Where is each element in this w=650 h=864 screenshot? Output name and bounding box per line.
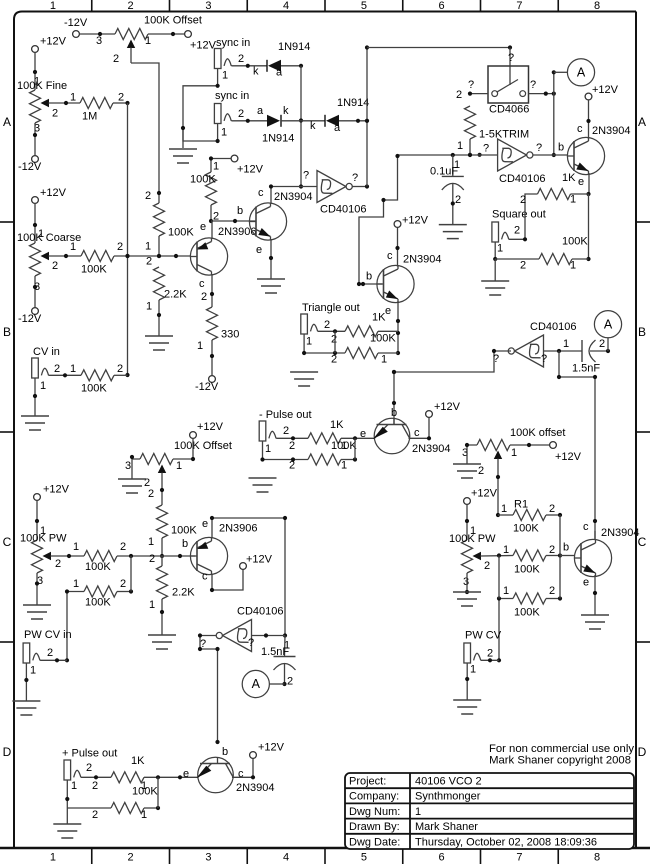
wire Q1 emitter up to node xyxy=(211,221,213,239)
resistor 100K (-pulse) xyxy=(308,440,357,465)
svg-text:2: 2 xyxy=(148,488,154,500)
resistor 100K-F xyxy=(84,541,126,573)
svg-text:1: 1 xyxy=(454,159,460,171)
svg-text:+12V: +12V xyxy=(40,187,67,199)
wire CV 100K to node column xyxy=(114,374,128,376)
capacitor 1.5nF (C row) xyxy=(261,636,296,688)
wire CD4066 left pin to trim xyxy=(456,79,488,101)
svg-text:b: b xyxy=(366,271,372,283)
svg-text:2.2K: 2.2K xyxy=(172,587,195,599)
transistor Q5 2N3904 -pulse xyxy=(373,407,451,455)
connector Square out jack xyxy=(492,222,520,255)
ground (triangle jack) xyxy=(290,372,318,386)
wire 2.2K-A to ground xyxy=(157,300,161,336)
potentiometer 100K PW (left) xyxy=(20,533,67,588)
power terminal +12V (offset right) xyxy=(550,442,582,463)
ground (2.2K-A) xyxy=(145,336,173,350)
connector - Pulse out jack xyxy=(259,421,289,455)
svg-text:k: k xyxy=(253,66,259,78)
wire +12V to 100K-B xyxy=(209,156,231,172)
svg-text:2: 2 xyxy=(283,425,289,437)
wire U4 input to PW net xyxy=(557,351,597,540)
svg-text:40106 VCO 2: 40106 VCO 2 xyxy=(415,776,482,788)
svg-text:+ Pulse out: + Pulse out xyxy=(62,748,117,760)
label sync in 1 xyxy=(216,37,250,49)
svg-text:1: 1 xyxy=(71,780,77,792)
wire coarse 100K to node row xyxy=(114,254,191,258)
wire node to Q6 base xyxy=(162,538,195,558)
potentiometer 100K Offset (PW) xyxy=(125,440,232,490)
wire +12V to coarse pot xyxy=(33,203,44,243)
svg-text:100K: 100K xyxy=(81,383,107,395)
wire jack1 pin2 to diode D1 xyxy=(231,64,267,78)
ground (0.1uF) xyxy=(439,225,467,239)
wire 100K to emitter node xyxy=(341,438,357,471)
wire 1K to emitter xyxy=(141,768,198,792)
svg-text:1: 1 xyxy=(497,243,503,255)
power terminal +12V (PW pot) xyxy=(34,484,70,501)
svg-text:2: 2 xyxy=(599,338,605,350)
wire 1K to emitter xyxy=(341,428,375,452)
diode D1 1N914 xyxy=(267,41,310,79)
svg-text:?: ? xyxy=(493,353,499,365)
wire fine pot pin3 to -12V xyxy=(33,123,37,156)
resistor 100K-H xyxy=(148,505,197,548)
wire fine wiper to 1M xyxy=(49,92,80,106)
svg-text:D: D xyxy=(3,745,12,759)
svg-text:b: b xyxy=(222,746,228,758)
wire PW CV right jack pin2 xyxy=(481,658,499,662)
wire PW right wiper to 100K-K xyxy=(481,544,513,558)
wire sync node vertical to inverter U1 input xyxy=(299,66,303,189)
label PW CV (right) xyxy=(465,630,502,642)
svg-text:Triangle out: Triangle out xyxy=(302,302,360,314)
wire 330 to -12V xyxy=(210,340,214,376)
ground (square jack) xyxy=(481,281,509,295)
svg-text:2: 2 xyxy=(146,256,152,268)
svg-text:2: 2 xyxy=(324,319,330,331)
svg-text:2: 2 xyxy=(128,0,134,12)
svg-text:2: 2 xyxy=(118,92,124,104)
wire Q7 collector to +12V xyxy=(232,758,255,779)
svg-text:c: c xyxy=(238,768,244,780)
svg-text:330: 330 xyxy=(221,329,239,341)
svg-text:1: 1 xyxy=(213,161,219,173)
svg-text:c: c xyxy=(577,123,583,135)
wire top rail to CD4066 control xyxy=(367,45,514,85)
svg-text:100K: 100K xyxy=(85,597,111,609)
svg-text:2: 2 xyxy=(238,108,244,120)
wire PW CV right to 100K-L xyxy=(497,585,513,662)
transistor Q3 2N3904 square xyxy=(558,125,631,188)
svg-text:2: 2 xyxy=(287,676,293,688)
svg-text:2.2K: 2.2K xyxy=(164,289,187,301)
wire coarse wiper to 100K xyxy=(49,241,81,258)
wire PW pot pin3 to ground xyxy=(35,573,39,605)
svg-text:1: 1 xyxy=(222,70,228,82)
svg-text:1: 1 xyxy=(501,503,507,515)
svg-text:3: 3 xyxy=(463,576,469,588)
svg-text:e: e xyxy=(583,577,589,589)
svg-text:PW CV: PW CV xyxy=(465,630,502,642)
svg-text:sync in: sync in xyxy=(216,37,250,49)
power terminal +12V (sync pull-up) xyxy=(231,155,264,175)
wire +pulse jack pin1 node xyxy=(65,780,111,808)
svg-text:A: A xyxy=(638,115,646,129)
svg-text:1N914: 1N914 xyxy=(262,133,294,145)
wire Q6 collector to +12V xyxy=(210,569,243,592)
svg-text:1: 1 xyxy=(221,127,227,139)
svg-text:2: 2 xyxy=(201,291,207,303)
wire +pulse jack pin2 to 1K xyxy=(81,775,111,792)
transistor Q7 2N3904 +pulse xyxy=(197,740,275,794)
svg-text:4: 4 xyxy=(283,852,289,864)
wire U5 output jog to Q7 base xyxy=(198,633,220,742)
wire emitter node to Q2 base xyxy=(211,205,256,223)
svg-text:7: 7 xyxy=(516,0,522,12)
svg-text:100K offset: 100K offset xyxy=(510,427,565,439)
svg-text:e: e xyxy=(385,305,391,317)
svg-text:+12V: +12V xyxy=(471,488,498,500)
svg-text:1.5nF: 1.5nF xyxy=(261,646,289,658)
svg-text:1: 1 xyxy=(265,443,271,455)
wire square jack pin1 node xyxy=(493,242,539,272)
power terminal -12V (osc) xyxy=(195,376,219,393)
resistor 2.2K-B xyxy=(149,553,195,611)
transistor Q2 2N3904 xyxy=(249,187,312,256)
svg-text:1: 1 xyxy=(563,338,569,350)
svg-text:2: 2 xyxy=(487,648,493,660)
svg-text:2: 2 xyxy=(117,241,123,253)
label + Pulse out xyxy=(62,748,117,760)
wire offset pot pin1 to +12V xyxy=(173,438,195,461)
svg-text:1-5KTRIM: 1-5KTRIM xyxy=(479,129,529,141)
svg-text:6: 6 xyxy=(439,852,445,864)
wire offset right wiper down to R1 xyxy=(496,475,500,517)
resistor 2.2K-A xyxy=(146,256,187,313)
svg-text:?: ? xyxy=(541,353,547,365)
svg-text:1: 1 xyxy=(570,194,576,206)
connector PW CV in jack xyxy=(23,643,53,677)
svg-text:+12V: +12V xyxy=(43,484,70,496)
label Square out xyxy=(492,209,546,221)
capacitor 1.5nF (B row) xyxy=(572,338,605,375)
wire 100K-A to node xyxy=(157,236,161,258)
power terminal +12V (Q6) xyxy=(240,554,273,570)
wire U4 input node xyxy=(544,338,583,353)
svg-text:2: 2 xyxy=(120,541,126,553)
wire +pulse jack to ground xyxy=(66,808,68,824)
wire inverter U3 output to Q3 base xyxy=(533,142,568,155)
power terminal -12V (fine pot) xyxy=(18,156,42,173)
resistor 100K-G xyxy=(84,578,126,609)
svg-text:A: A xyxy=(252,677,261,691)
svg-text:3: 3 xyxy=(96,35,102,47)
svg-text:100K: 100K xyxy=(514,564,540,576)
label sync in 2 xyxy=(215,90,249,102)
op-amp U3 CD40106 schmitt inverter xyxy=(483,139,545,185)
svg-text:1: 1 xyxy=(73,578,79,590)
svg-text:c: c xyxy=(387,250,393,262)
node A circle (B row) xyxy=(594,311,621,338)
svg-text:3: 3 xyxy=(205,0,211,12)
wire R1 leads xyxy=(498,513,562,517)
wire offset pot pin1 to +12V terminal xyxy=(148,32,185,36)
wire Q6 emitter to inverter U5 input xyxy=(210,516,287,638)
svg-text:2: 2 xyxy=(520,194,526,206)
svg-text:A: A xyxy=(577,66,586,80)
wire D1 anode to sync node xyxy=(281,64,303,68)
svg-text:c: c xyxy=(258,187,264,199)
svg-text:1: 1 xyxy=(381,354,387,366)
ground (PW pot left) xyxy=(23,605,51,619)
svg-text:8: 8 xyxy=(594,0,600,12)
svg-text:2: 2 xyxy=(92,809,98,821)
potentiometer 100K Coarse xyxy=(17,232,81,293)
svg-text:?: ? xyxy=(508,52,514,64)
wire -pulse jack pin1 node xyxy=(260,441,308,472)
grid row labels left xyxy=(3,115,12,759)
svg-text:2: 2 xyxy=(289,440,295,452)
svg-text:1: 1 xyxy=(197,340,203,352)
wire Q2 emitter to ground xyxy=(269,239,273,279)
svg-text:2: 2 xyxy=(549,585,555,597)
svg-text:?: ? xyxy=(468,79,474,91)
svg-text:2: 2 xyxy=(120,578,126,590)
wire 1M pin2 node vertical xyxy=(113,101,130,377)
resistor 100K-B pull-up xyxy=(190,172,217,205)
svg-text:1: 1 xyxy=(50,0,56,12)
svg-text:-12V: -12V xyxy=(195,381,219,393)
resistor 1K (-pulse) xyxy=(308,419,344,444)
wire PW CV jack pin2 xyxy=(40,658,67,662)
svg-text:C: C xyxy=(3,535,12,549)
grid column ticks top xyxy=(92,0,559,12)
svg-text:Synthmonger: Synthmonger xyxy=(415,791,481,803)
svg-text:B: B xyxy=(638,325,646,339)
ground (PW CV right) xyxy=(453,700,481,714)
svg-text:CV in: CV in xyxy=(33,346,60,358)
svg-text:1: 1 xyxy=(503,544,509,556)
svg-text:2: 2 xyxy=(456,89,462,101)
wire CV jack pin1 to ground xyxy=(33,378,37,416)
transistor Q1 2N3906 xyxy=(190,221,256,290)
svg-text:?: ? xyxy=(303,170,309,182)
title block xyxy=(345,773,634,849)
wire +12V to fine pot xyxy=(33,52,37,90)
svg-text:2: 2 xyxy=(514,225,520,237)
svg-text:1: 1 xyxy=(30,665,36,677)
svg-text:1: 1 xyxy=(457,140,463,152)
svg-text:c: c xyxy=(202,571,208,583)
wire +12V to PW pot xyxy=(35,500,46,540)
resistor 100K-A xyxy=(145,190,194,253)
wire -pulse jack pin2 to 1K xyxy=(276,436,308,452)
svg-text:3: 3 xyxy=(125,460,131,472)
wire 100K-K to base node xyxy=(546,542,569,558)
svg-text:100K Offset: 100K Offset xyxy=(174,440,232,452)
svg-text:c: c xyxy=(199,278,205,290)
wire CV jack pin2 to 100K xyxy=(49,363,81,377)
wire node to U3 jog down to Q4 base xyxy=(357,154,400,286)
note non-commercial xyxy=(489,743,634,755)
svg-text:2: 2 xyxy=(145,190,151,202)
svg-text:?: ? xyxy=(536,142,542,154)
power terminal +12V (square driver) xyxy=(585,84,619,100)
svg-text:2N3904: 2N3904 xyxy=(274,191,313,203)
wire 100K to emitter node xyxy=(141,777,160,821)
wire jack1 pin1 to ground rail xyxy=(183,69,220,149)
svg-text:1: 1 xyxy=(141,809,147,821)
svg-text:2: 2 xyxy=(549,544,555,556)
wire U4 output to feedback xyxy=(492,349,511,353)
grid column labels top xyxy=(50,0,600,12)
svg-text:2N3904: 2N3904 xyxy=(236,782,275,794)
svg-text:e: e xyxy=(256,244,262,256)
potentiometer 100K offset (right) xyxy=(462,427,565,477)
svg-text:1N914: 1N914 xyxy=(278,41,310,53)
connector sync in jack 1 xyxy=(214,49,244,82)
svg-text:-12V: -12V xyxy=(64,17,88,29)
svg-text:Dwg Num:: Dwg Num: xyxy=(349,806,400,818)
svg-text:100K: 100K xyxy=(132,786,158,798)
svg-text:100K Offset: 100K Offset xyxy=(144,15,202,27)
wire D2 cathode to D3 xyxy=(281,120,325,132)
svg-text:1: 1 xyxy=(70,92,76,104)
power terminal -12V (coarse) xyxy=(18,308,42,325)
resistor 330 xyxy=(197,307,239,352)
svg-text:2N3904: 2N3904 xyxy=(403,254,442,266)
svg-text:2: 2 xyxy=(52,108,58,120)
svg-text:Drawn By:: Drawn By: xyxy=(349,821,400,833)
note copyright xyxy=(489,755,631,767)
svg-text:2N3906: 2N3906 xyxy=(219,523,258,535)
svg-text:2N3904: 2N3904 xyxy=(412,443,451,455)
svg-text:PW CV in: PW CV in xyxy=(24,629,72,641)
svg-text:2: 2 xyxy=(86,762,92,774)
svg-text:1: 1 xyxy=(570,260,576,272)
svg-text:D: D xyxy=(638,745,647,759)
svg-text:1: 1 xyxy=(470,664,476,676)
wire jack2 pin2 to diode D2 xyxy=(231,105,267,123)
svg-text:2: 2 xyxy=(478,465,484,477)
capacitor 0.1uF xyxy=(430,155,464,225)
svg-text:1: 1 xyxy=(146,301,152,313)
wire jack2 pin1 to ground rail xyxy=(181,124,220,144)
wire 100K-H to PW node xyxy=(160,538,164,558)
wire 100K-B to emitter node xyxy=(209,205,219,223)
svg-text:Dwg Date:: Dwg Date: xyxy=(349,836,400,848)
svg-text:2: 2 xyxy=(128,852,134,864)
label Triangle out xyxy=(302,302,360,314)
resistor 100K (triangle) xyxy=(345,333,396,366)
svg-text:2: 2 xyxy=(238,53,244,65)
svg-text:?: ? xyxy=(352,172,358,184)
wire D3 anode to top rail xyxy=(339,119,369,123)
connector Triangle out jack xyxy=(301,314,330,348)
svg-text:2: 2 xyxy=(55,558,61,570)
svg-text:e: e xyxy=(360,428,366,440)
svg-text:1K: 1K xyxy=(330,419,344,431)
wire feedback B row xyxy=(392,351,494,425)
svg-text:1: 1 xyxy=(306,336,312,348)
svg-text:+12V: +12V xyxy=(197,421,224,433)
wire 2.2K-B to ground xyxy=(160,556,164,635)
wire PW wiper to 100K-F xyxy=(51,541,84,558)
svg-text:5: 5 xyxy=(361,0,367,12)
wire square jack pin2 to 1K xyxy=(509,194,538,241)
svg-text:c: c xyxy=(583,521,589,533)
svg-text:2: 2 xyxy=(149,553,155,565)
svg-text:2: 2 xyxy=(331,334,337,346)
svg-text:+12V: +12V xyxy=(237,164,264,176)
svg-text:e: e xyxy=(578,176,584,188)
svg-text:c: c xyxy=(414,427,420,439)
svg-text:1.5nF: 1.5nF xyxy=(572,363,600,375)
resistor 100K (square feedback) xyxy=(539,236,588,272)
svg-text:100K PW: 100K PW xyxy=(449,533,496,545)
wire offset wiper to 100K-A xyxy=(131,63,161,203)
svg-text:1K: 1K xyxy=(372,312,386,324)
node A circle (top) xyxy=(554,59,595,86)
svg-text:1: 1 xyxy=(148,536,154,548)
wire PW CV right jack pin1 to ground xyxy=(465,663,469,700)
svg-text:CD40106: CD40106 xyxy=(530,321,576,333)
svg-text:1: 1 xyxy=(176,460,182,472)
svg-text:2: 2 xyxy=(47,647,53,659)
svg-text:-12V: -12V xyxy=(18,313,42,325)
ground (+pulse jack) xyxy=(53,824,81,838)
potentiometer 100K Offset xyxy=(113,15,202,66)
wire PW CV to 100K-G xyxy=(65,578,84,662)
svg-text:e: e xyxy=(200,221,206,233)
svg-text:a: a xyxy=(257,105,264,117)
resistor 1K (+pulse) xyxy=(111,755,145,783)
svg-text:?: ? xyxy=(483,143,489,155)
wire 100K-F to node xyxy=(117,554,162,558)
svg-text:1: 1 xyxy=(415,806,421,818)
svg-text:1: 1 xyxy=(34,76,40,88)
svg-text:1K: 1K xyxy=(131,755,145,767)
svg-text:- Pulse out: - Pulse out xyxy=(259,409,312,421)
svg-text:b: b xyxy=(237,205,243,217)
wire Q5 collector to +12V xyxy=(409,417,432,440)
wire wiper node down xyxy=(498,556,500,599)
wire net A vertical xyxy=(552,70,556,157)
power terminal +12V (PW pot right) xyxy=(464,488,498,505)
wire Q8 emitter to ground xyxy=(593,575,597,615)
svg-text:Project:: Project: xyxy=(349,776,386,788)
wire Q4 emitter down xyxy=(396,301,400,355)
potentiometer 100K Fine xyxy=(17,76,67,135)
power terminal +12V (offset pot) xyxy=(185,31,217,52)
svg-text:?: ? xyxy=(530,79,536,91)
svg-text:CD40106: CD40106 xyxy=(499,173,545,185)
power terminal +12V (-pulse) xyxy=(426,401,461,417)
svg-text:2N3904: 2N3904 xyxy=(601,527,640,539)
wire trim to main node xyxy=(468,139,482,157)
resistor 1K (triangle) xyxy=(345,312,386,337)
svg-text:2: 2 xyxy=(54,363,60,375)
svg-text:2: 2 xyxy=(92,780,98,792)
wire +12V to Q3 collector xyxy=(577,100,591,139)
svg-text:100K: 100K xyxy=(513,523,539,535)
svg-text:?: ? xyxy=(248,637,254,649)
svg-text:100K: 100K xyxy=(85,561,111,573)
transistor Q4 2N3904 triangle buffer xyxy=(377,254,442,318)
ground (-pulse jack) xyxy=(249,478,277,492)
transistor Q8 2N3904 (right) xyxy=(574,521,639,589)
